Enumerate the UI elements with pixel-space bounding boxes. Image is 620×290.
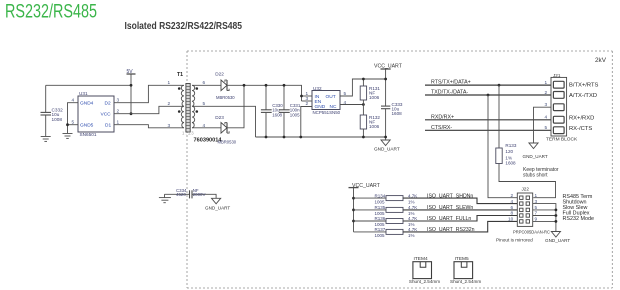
junction NC divider <box>362 103 365 106</box>
junction VCC_UART out <box>384 78 387 81</box>
wire SLEWn to J22 pin6 <box>403 209 517 211</box>
junction D23 rail <box>243 84 246 87</box>
svg-text:RS232 Mode: RS232 Mode <box>563 216 594 222</box>
junction U32 IN <box>300 95 303 98</box>
svg-text:GND_UART: GND_UART <box>545 238 570 243</box>
ground earth under C332 <box>41 137 51 142</box>
svg-text:1: 1 <box>545 80 548 85</box>
svg-text:D1: D1 <box>105 123 111 129</box>
wire VCC rail from C332 to 5V node <box>46 84 131 86</box>
svg-text:120: 120 <box>505 149 513 154</box>
junction pullup row3 <box>352 220 355 223</box>
svg-text:4: 4 <box>203 123 206 128</box>
svg-text:GND5: GND5 <box>80 123 94 129</box>
svg-text:9: 9 <box>535 217 538 222</box>
svg-text:MBR0530: MBR0530 <box>216 95 235 100</box>
svg-text:R133: R133 <box>505 143 516 148</box>
wire U31 D1 to transformer pin 3 <box>114 125 184 128</box>
svg-text:D22: D22 <box>215 71 224 76</box>
svg-text:GND: GND <box>315 104 326 110</box>
svg-text:RX+/RXD: RX+/RXD <box>569 116 594 122</box>
svg-text:2: 2 <box>306 101 309 106</box>
svg-text:4: 4 <box>511 199 514 204</box>
svg-text:RX-/CTS: RX-/CTS <box>569 126 592 132</box>
secondary winding <box>192 85 195 128</box>
svg-text:4: 4 <box>72 98 75 103</box>
wire D23 cathode up to rail <box>227 85 244 128</box>
svg-text:6: 6 <box>203 80 206 85</box>
junction VCC pin wire <box>130 112 133 115</box>
svg-text:5: 5 <box>72 120 75 125</box>
svg-text:4520: 4520 <box>176 192 186 197</box>
svg-text:MBR0530: MBR0530 <box>218 139 237 144</box>
junction pullup row1 <box>352 197 355 200</box>
ground GND_UART at J21 pin3 <box>523 143 548 159</box>
wire TXD down to J22 pin2 <box>488 95 517 198</box>
wire J21 pin3 to ground <box>534 107 552 143</box>
transformer T1 760390014 <box>177 72 222 143</box>
svg-text:NC: NC <box>330 104 337 110</box>
resistor R134 4.7K <box>354 193 418 204</box>
resistor R133 120 terminator <box>496 85 556 198</box>
svg-text:D2: D2 <box>105 100 111 106</box>
svg-text:U31: U31 <box>79 91 88 96</box>
svg-text:D23: D23 <box>215 115 224 120</box>
jumper shunt ITEM5 <box>450 256 481 284</box>
resistor R135 4.7K <box>354 205 418 216</box>
svg-text:6: 6 <box>511 205 514 210</box>
svg-text:1%: 1% <box>408 199 415 204</box>
wire FULLn to J22 pin8 <box>403 216 517 222</box>
primary winding <box>181 85 184 128</box>
svg-text:1005: 1005 <box>375 199 386 204</box>
junction RTS to R133 <box>498 84 501 87</box>
jumper shunt ITEM4 <box>409 256 440 284</box>
wire ground rail GND_UART <box>256 136 386 138</box>
wire CTS line <box>425 129 551 131</box>
capacitor C332 <box>41 85 64 136</box>
junction C331 bottom <box>283 136 286 139</box>
svg-text:U32: U32 <box>313 86 322 91</box>
wire transformer pin 4 to D23 <box>192 127 221 129</box>
svg-text:A/TX-/TXD: A/TX-/TXD <box>569 93 597 99</box>
svg-text:10: 10 <box>508 217 514 222</box>
svg-text:R135: R135 <box>375 205 386 210</box>
svg-text:3: 3 <box>545 102 548 107</box>
junction J22 pin5 gnd <box>555 209 558 212</box>
connector J21 TERM BLOCK <box>546 73 578 143</box>
svg-text:OUT: OUT <box>326 94 336 100</box>
wire RS232n to J22 pin10 <box>403 221 517 232</box>
junction C330 bottom <box>265 136 268 139</box>
svg-text:TERM BLOCK: TERM BLOCK <box>546 137 578 143</box>
svg-text:1%: 1% <box>408 233 415 238</box>
junction TXD to J22 <box>487 94 490 97</box>
svg-text:NCP551SN50: NCP551SN50 <box>313 110 341 115</box>
svg-text:R137: R137 <box>375 227 386 232</box>
wire RTS line <box>425 84 551 86</box>
diode D22 MBR0530 <box>215 71 235 99</box>
wire SHDNn to J22 pin4 <box>403 198 517 204</box>
junction J22 pin9 gnd <box>555 220 558 223</box>
wire U31 D2 to transformer pin 1 <box>114 85 184 102</box>
wire U32 NC to divider <box>340 104 363 106</box>
svg-text:2kV: 2kV <box>595 57 607 64</box>
wire D22 cathode rail to U32 IN <box>227 85 302 101</box>
svg-text:1006: 1006 <box>369 95 380 100</box>
svg-text:Shunt_2.54mm: Shunt_2.54mm <box>409 279 440 284</box>
svg-text:RS232/RS485: RS232/RS485 <box>5 2 97 23</box>
svg-text:1: 1 <box>168 80 171 85</box>
core <box>186 84 190 133</box>
capacitor C333 <box>381 102 403 140</box>
junction rail C333 <box>384 136 387 139</box>
svg-text:R136: R136 <box>375 216 386 221</box>
svg-text:GND_UART: GND_UART <box>523 154 548 159</box>
svg-text:3: 3 <box>168 123 171 128</box>
wire U32 IN <box>302 95 313 97</box>
wire RXD line <box>425 119 551 121</box>
svg-text:5: 5 <box>545 125 548 130</box>
wire TXD line <box>425 94 551 96</box>
svg-text:1: 1 <box>535 193 538 198</box>
svg-text:4: 4 <box>545 115 548 120</box>
resistor R137 4.7K <box>354 227 418 238</box>
junction R132 bottom <box>362 136 365 139</box>
svg-text:8: 8 <box>511 211 514 216</box>
resistor R131 NF <box>360 79 380 115</box>
svg-text:PRPC005DAAN-RC: PRPC005DAAN-RC <box>513 230 551 235</box>
connector J22 PRPC005DAAN-RC <box>513 186 551 234</box>
junction C330 top <box>265 84 268 87</box>
wire U31 GND4/GND5 to ground <box>68 103 79 134</box>
regulator U32 NCP551SN50 <box>312 86 341 115</box>
wire U32 OUT to VCC_UART <box>340 79 386 96</box>
svg-text:1005: 1005 <box>375 233 386 238</box>
wire transformer pin 5 center tap to ground rail <box>192 106 256 137</box>
ground earth at C334 <box>159 194 171 202</box>
wire U32 GND down to rail <box>301 107 312 138</box>
power symbol VCC_UART <box>374 63 403 106</box>
power symbol 5V <box>127 69 136 114</box>
svg-text:5: 5 <box>344 91 347 96</box>
svg-text:R134: R134 <box>375 193 386 198</box>
ground GND_UART at J22 <box>545 232 570 244</box>
svg-text:GND4: GND4 <box>80 100 94 106</box>
junction pullup row2 <box>352 209 355 212</box>
svg-text:1005: 1005 <box>290 113 300 118</box>
svg-text:Pinout is mirrored: Pinout is mirrored <box>496 237 533 242</box>
resistor R132 NF <box>360 115 380 137</box>
svg-text:GND_UART: GND_UART <box>374 146 400 151</box>
svg-text:2: 2 <box>511 193 514 198</box>
junction R131 top <box>362 78 365 81</box>
ground GND_UART under C333 <box>374 140 400 151</box>
junction J22 pin7 gnd <box>555 214 558 217</box>
junction GND5 <box>66 123 69 126</box>
svg-text:2: 2 <box>117 109 120 114</box>
svg-text:1608: 1608 <box>272 113 282 118</box>
ground GND_UART at C334 <box>205 198 230 210</box>
op-amp U31 SN6501 transformer driver <box>78 91 114 137</box>
junction C331 top <box>283 84 286 87</box>
svg-text:1608: 1608 <box>505 161 516 166</box>
junction U32 GND rail <box>299 136 302 139</box>
svg-text:2000V: 2000V <box>193 192 206 197</box>
svg-text:1006: 1006 <box>369 124 380 129</box>
ground earth under U31 <box>63 134 73 139</box>
isolation boundary dashed box 2kV <box>187 51 612 288</box>
svg-text:1008: 1008 <box>52 117 63 122</box>
svg-text:5: 5 <box>203 101 206 106</box>
svg-text:1608: 1608 <box>392 111 403 116</box>
polarity dots <box>178 87 181 90</box>
svg-text:2: 2 <box>168 101 171 106</box>
diode D23 MBR0530 <box>215 115 236 144</box>
svg-text:T1: T1 <box>177 72 183 78</box>
svg-text:5: 5 <box>535 205 538 210</box>
power symbol VCC_UART lower <box>349 183 381 232</box>
resistor R136 4.7K <box>354 216 418 227</box>
capacitor C334 NF isolation <box>165 188 217 199</box>
svg-text:2: 2 <box>545 90 548 95</box>
svg-text:1 : 1.3: 1 : 1.3 <box>182 131 194 136</box>
wire U31 VCC to transformer pin 2 <box>114 106 184 113</box>
svg-text:J22: J22 <box>522 186 530 191</box>
svg-text:3: 3 <box>117 98 120 103</box>
junction 5V rail <box>130 84 133 87</box>
wire J22 odd pins to ground <box>533 204 556 232</box>
svg-text:stubs short: stubs short <box>523 173 548 179</box>
svg-text:VCC: VCC <box>101 112 112 118</box>
capacitor C331 <box>279 85 301 137</box>
svg-text:3: 3 <box>535 199 538 204</box>
svg-text:B/TX+/RTS: B/TX+/RTS <box>569 83 599 89</box>
svg-text:7: 7 <box>535 211 538 216</box>
svg-text:GND_UART: GND_UART <box>205 205 230 210</box>
svg-text:Shunt_2.54mm: Shunt_2.54mm <box>450 279 481 284</box>
svg-text:Isolated RS232/RS422/RS485: Isolated RS232/RS422/RS485 <box>125 21 243 32</box>
svg-text:SN6501: SN6501 <box>80 132 97 137</box>
wire U32 EN <box>302 100 313 102</box>
wire transformer pin 6 to D22 <box>192 84 221 86</box>
svg-text:1: 1 <box>117 120 120 125</box>
capacitor C330 <box>261 85 283 137</box>
